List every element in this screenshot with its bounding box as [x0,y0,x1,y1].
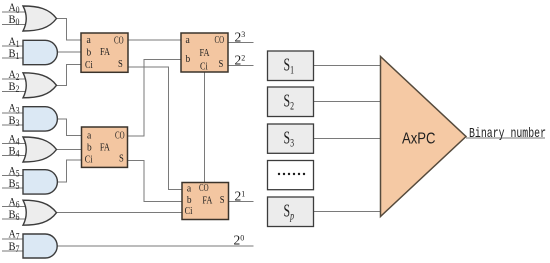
svg-text:a: a [87,34,91,46]
svg-text:FA: FA [200,47,210,59]
svg-text:20: 20 [234,233,245,248]
svg-text:S: S [219,58,224,70]
svg-text:S: S [119,152,124,164]
svg-text:b: b [186,53,191,65]
svg-text:a: a [186,34,190,46]
svg-text:CO: CO [215,34,225,46]
svg-text:S: S [220,194,225,206]
svg-text:Ci: Ci [200,61,208,73]
svg-text:a: a [187,183,191,195]
svg-text:Ci: Ci [185,205,193,217]
svg-text:CO: CO [199,182,209,194]
svg-text:FA: FA [100,46,110,58]
svg-text:AxPC: AxPC [402,131,436,148]
svg-text:CO: CO [115,130,125,142]
svg-text:b: b [87,46,92,58]
svg-text:FA: FA [202,195,212,207]
svg-text:b: b [87,142,92,154]
svg-text:FA: FA [100,142,110,154]
svg-text:S: S [118,58,123,70]
svg-text:Ci: Ci [85,59,93,71]
svg-text:CO: CO [114,35,124,47]
svg-text:Binary number: Binary number [469,125,546,141]
svg-text:a: a [87,130,91,142]
svg-text:Ci: Ci [85,153,93,165]
